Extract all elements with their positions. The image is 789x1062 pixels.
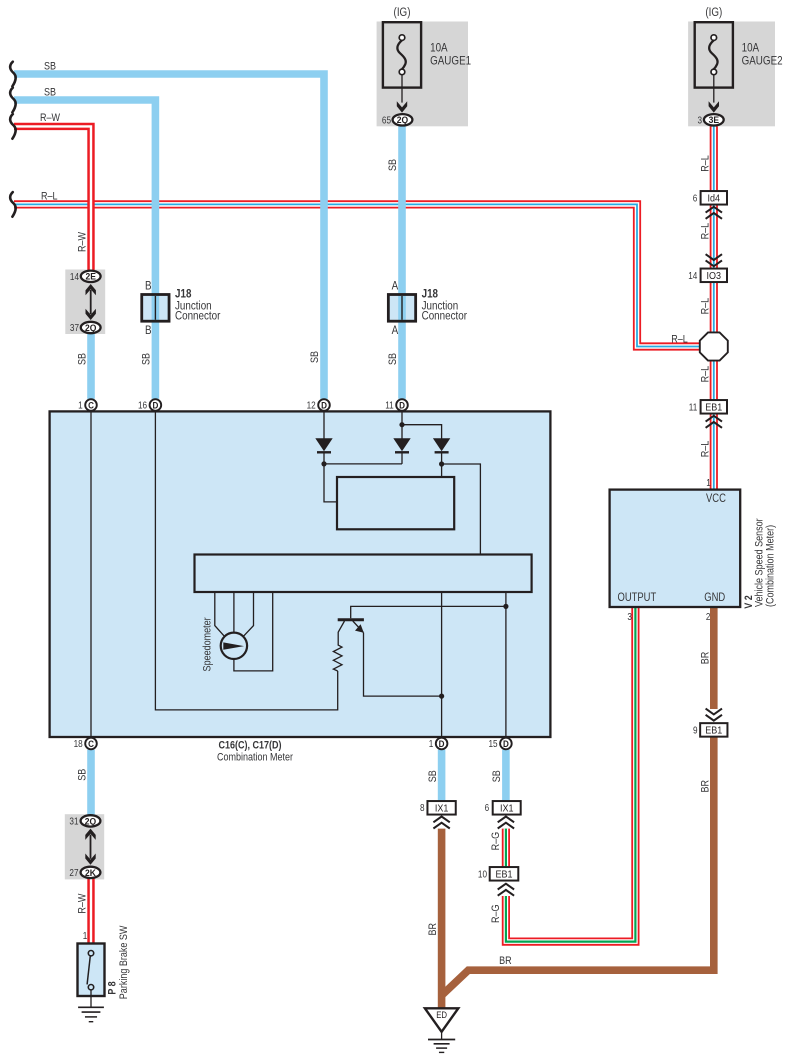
svg-text:R–L: R–L (700, 222, 712, 239)
svg-text:R–L: R–L (41, 191, 58, 203)
svg-text:37: 37 (70, 322, 79, 333)
svg-text:EB1: EB1 (705, 725, 722, 737)
svg-text:R–L: R–L (700, 297, 712, 314)
svg-text:2Q: 2Q (85, 322, 96, 333)
svg-text:10A: 10A (430, 42, 448, 55)
svg-text:D: D (503, 738, 509, 749)
svg-text:11: 11 (385, 400, 394, 411)
svg-text:(IG): (IG) (394, 6, 411, 19)
svg-text:R–G: R–G (490, 832, 502, 851)
svg-text:3: 3 (697, 115, 702, 126)
svg-text:(IG): (IG) (705, 6, 722, 19)
svg-text:ED: ED (436, 1009, 447, 1020)
svg-text:1: 1 (83, 930, 88, 941)
svg-text:10: 10 (478, 869, 487, 880)
svg-text:A: A (392, 324, 399, 337)
svg-text:BR: BR (427, 923, 439, 936)
svg-text:C16(C), C17(D): C16(C), C17(D) (218, 740, 281, 752)
svg-text:OUTPUT: OUTPUT (618, 591, 657, 604)
svg-text:1: 1 (429, 738, 434, 749)
svg-text:C: C (88, 738, 94, 749)
svg-text:GND: GND (704, 591, 725, 604)
svg-text:R–L: R–L (671, 334, 688, 346)
svg-text:12: 12 (307, 400, 316, 411)
svg-text:Id4: Id4 (708, 193, 721, 205)
svg-text:IX1: IX1 (435, 803, 448, 815)
svg-text:Speedometer: Speedometer (202, 617, 214, 672)
svg-text:8: 8 (420, 802, 425, 813)
svg-text:Connector: Connector (422, 310, 468, 323)
svg-text:SB: SB (44, 61, 56, 73)
svg-text:VCC: VCC (706, 492, 726, 505)
svg-text:1: 1 (706, 477, 711, 488)
svg-text:R–W: R–W (40, 112, 60, 124)
svg-text:10A: 10A (742, 42, 760, 55)
svg-text:D: D (439, 738, 445, 749)
svg-text:R–L: R–L (700, 365, 712, 382)
svg-text:C: C (88, 400, 94, 411)
svg-text:A: A (392, 279, 399, 292)
svg-text:9: 9 (693, 725, 698, 736)
svg-text:18: 18 (74, 738, 83, 749)
svg-text:SB: SB (387, 159, 399, 171)
svg-text:D: D (321, 400, 327, 411)
svg-text:Parking Brake SW: Parking Brake SW (118, 925, 130, 999)
svg-text:15: 15 (488, 738, 497, 749)
svg-text:R–L: R–L (700, 155, 712, 172)
svg-text:EB1: EB1 (705, 402, 722, 414)
svg-text:GAUGE2: GAUGE2 (742, 55, 783, 68)
svg-text:EB1: EB1 (496, 869, 513, 881)
svg-text:IO3: IO3 (707, 270, 721, 282)
svg-text:GAUGE1: GAUGE1 (430, 55, 471, 68)
svg-text:16: 16 (138, 400, 147, 411)
svg-text:2Q: 2Q (397, 115, 408, 126)
svg-text:27: 27 (69, 867, 78, 878)
svg-text:B: B (145, 279, 152, 292)
svg-text:R–L: R–L (700, 440, 712, 457)
svg-text:SB: SB (44, 87, 56, 99)
svg-text:BR: BR (700, 652, 712, 665)
svg-text:11: 11 (689, 402, 698, 413)
svg-text:2E: 2E (85, 271, 95, 282)
svg-text:P 8: P 8 (107, 981, 119, 995)
svg-text:SB: SB (77, 353, 89, 365)
svg-text:R–W: R–W (77, 893, 89, 913)
svg-text:R–G: R–G (490, 904, 502, 923)
svg-text:(Combination Meter): (Combination Meter) (765, 525, 777, 607)
svg-text:D: D (152, 400, 158, 411)
svg-text:14: 14 (688, 270, 697, 281)
svg-text:2: 2 (706, 611, 711, 622)
svg-text:6: 6 (485, 802, 490, 813)
svg-text:Connector: Connector (175, 310, 221, 323)
svg-text:B: B (145, 324, 152, 337)
svg-text:2Q: 2Q (85, 816, 96, 827)
svg-text:14: 14 (70, 271, 79, 282)
svg-text:65: 65 (382, 115, 391, 126)
svg-text:SB: SB (387, 353, 399, 365)
svg-text:Combination Meter: Combination Meter (217, 752, 294, 764)
svg-text:IX1: IX1 (500, 803, 513, 815)
svg-text:1: 1 (78, 400, 83, 411)
svg-text:SB: SB (141, 353, 153, 365)
svg-text:SB: SB (77, 769, 89, 781)
svg-text:SB: SB (427, 770, 439, 782)
svg-text:3E: 3E (709, 115, 719, 126)
svg-text:BR: BR (499, 955, 512, 967)
svg-text:SB: SB (491, 770, 503, 782)
svg-text:BR: BR (700, 780, 712, 793)
svg-text:D: D (399, 400, 405, 411)
svg-text:6: 6 (693, 193, 698, 204)
svg-text:SB: SB (309, 351, 321, 363)
svg-text:3: 3 (627, 611, 632, 622)
svg-text:2K: 2K (85, 867, 96, 878)
svg-text:31: 31 (69, 816, 78, 827)
svg-text:Vehicle Speed Sensor: Vehicle Speed Sensor (754, 518, 766, 607)
svg-text:R–W: R–W (77, 232, 89, 252)
